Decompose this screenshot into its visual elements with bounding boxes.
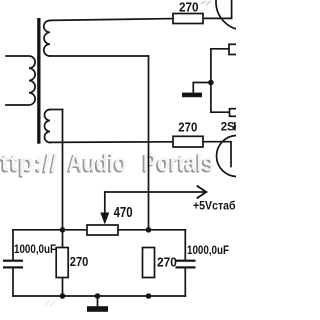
svg-text:Audio: Audio <box>68 149 127 177</box>
node: rail-left resistor top <box>60 227 66 233</box>
resistor lower-right (cut) <box>230 109 242 117</box>
svg-text:+5Vстаб: +5Vстаб <box>193 201 236 213</box>
resistor 270 lower <box>173 136 203 147</box>
svg-text:Portals: Portals <box>143 149 214 177</box>
wire sec1 top lead to R270 top <box>50 19 173 21</box>
capacitor C1 plates <box>3 260 23 262</box>
capacitor C2 plates <box>176 260 196 262</box>
resistor 270 left <box>56 248 68 278</box>
node: rail-right resistor top <box>146 227 152 233</box>
potentiometer 470 body <box>87 225 118 235</box>
resistor 270 right <box>143 248 155 278</box>
transformer core <box>37 18 40 144</box>
svg-text:470: 470 <box>114 205 133 221</box>
wire top rail <box>13 229 185 231</box>
primary winding <box>6 56 35 105</box>
wire cap left branch <box>12 230 14 296</box>
wire sec2 bottom lead to R270 lower <box>50 141 173 144</box>
wire branch to R upper-right <box>211 48 229 50</box>
node: bottom rail ground <box>95 293 101 299</box>
ground bottom <box>87 306 108 312</box>
svg-text:270: 270 <box>157 255 177 270</box>
svg-text:ttp://: ttp:// <box>1 149 58 177</box>
wire +5V line <box>105 191 205 193</box>
watermark remnant bottom-left <box>45 301 55 306</box>
tube V1 envelope <box>216 0 272 30</box>
potentiometer wiper arrow <box>100 213 109 225</box>
wire branch to R lower-right <box>211 111 230 113</box>
wire to ground upper <box>193 83 211 93</box>
node: right branch ground <box>208 80 214 86</box>
tube V2 envelope <box>217 136 258 177</box>
wire sec2 top lead <box>50 109 63 111</box>
ground upper <box>182 93 202 98</box>
watermark shadow row <box>0 149 214 178</box>
wire vertical left <box>62 110 64 297</box>
ground bottom stem <box>97 296 99 306</box>
svg-text:1000,0uF: 1000,0uF <box>14 242 56 256</box>
wire sec1 bottom lead <box>50 55 149 57</box>
node: bottom rail right <box>146 293 152 299</box>
wire R270 top to tube grid <box>203 0 232 18</box>
wire vertical center <box>148 56 150 230</box>
wire right-edge branch vertical <box>210 49 212 112</box>
wire bottom rail <box>13 295 185 297</box>
resistor 270 top <box>173 14 203 24</box>
potentiometer wiper wire <box>104 192 106 213</box>
svg-text:270: 270 <box>70 254 89 269</box>
svg-text:270: 270 <box>179 0 199 14</box>
wire cap right branch <box>184 230 186 296</box>
svg-text:1000,0uF: 1000,0uF <box>187 243 229 257</box>
svg-text:270: 270 <box>178 119 197 134</box>
node: bottom rail left <box>60 293 66 299</box>
svg-text:2SK: 2SK <box>221 121 236 133</box>
watermark remnant top-right <box>201 1 211 5</box>
wire R270 lower to tube grid <box>203 142 231 167</box>
resistor upper-right (cut) <box>229 44 241 54</box>
arrowhead +5V <box>198 186 207 198</box>
secondary winding top <box>44 20 50 56</box>
secondary winding bottom <box>45 110 51 143</box>
